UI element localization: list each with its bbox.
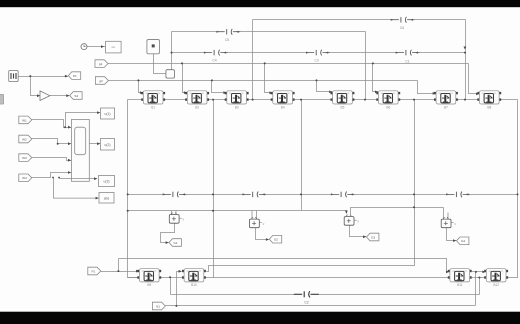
svg-text:abs: abs	[104, 197, 110, 201]
source block	[9, 70, 19, 81]
svg-text:B6: B6	[386, 105, 390, 109]
svg-text:B10: B10	[191, 283, 197, 287]
svg-text:W3: W3	[22, 156, 27, 160]
wire line C4-C3-C1 net	[172, 52, 466, 54]
u4 block	[99, 193, 114, 204]
wire g2 drop to B3	[212, 81, 227, 93]
wire main row bus	[128, 99, 518, 101]
mosfet B7	[434, 91, 458, 110]
wire driver2 pins	[252, 211, 257, 219]
capacitor C1	[396, 49, 420, 56]
svg-text:u(2): u(2)	[104, 143, 110, 147]
wire g2 drop to B5	[317, 81, 333, 92]
svg-text:B3: B3	[235, 105, 239, 109]
svg-text:S2: S2	[74, 94, 78, 98]
mosfet B6	[376, 91, 400, 110]
wire vertical x365.5	[365, 32, 367, 100]
wire g1 drop to B2	[183, 64, 187, 93]
capacitor C7	[163, 191, 187, 198]
svg-text:C3: C3	[314, 59, 318, 63]
goto tag G3	[367, 233, 379, 241]
svg-text:g1: g1	[99, 62, 103, 66]
mosfet B2	[185, 91, 209, 110]
wire W4 branch to u3	[60, 178, 98, 179]
driver U4	[441, 217, 456, 228]
svg-text:B4: B4	[281, 105, 285, 109]
svg-text:B12: B12	[493, 283, 499, 287]
wire gate line g2	[109, 80, 418, 82]
wire vertical x301.5	[301, 100, 303, 211]
wire N1 vertical to B10	[177, 272, 182, 306]
svg-text:C1: C1	[405, 60, 409, 64]
svg-text:C4: C4	[212, 59, 216, 63]
wire g2 drop to B7	[418, 81, 436, 94]
wire right bus vertical	[507, 100, 517, 278]
u2 block	[101, 139, 115, 151]
svg-text:g2: g2	[99, 79, 103, 83]
wire g1 drop to B6	[373, 64, 379, 92]
wire driver2 output	[256, 228, 269, 239]
mosfet B8	[477, 91, 501, 110]
wire driver4 pins	[444, 208, 449, 219]
wire g1 drop to B8	[469, 64, 480, 94]
left edge tab	[0, 94, 4, 104]
mosfet B5	[331, 91, 355, 110]
driver U2	[250, 217, 265, 228]
mosfet B9	[137, 269, 161, 288]
wire W1	[30, 120, 71, 128]
from tag W1	[19, 116, 32, 124]
bottom letterbox bar	[0, 312, 520, 324]
svg-text:B5: B5	[341, 105, 345, 109]
capacitor C10	[446, 191, 470, 198]
svg-text:C6: C6	[400, 26, 404, 30]
wire driver1 output	[161, 223, 175, 242]
wire driver4 output	[447, 228, 457, 240]
solver block	[166, 70, 175, 78]
goto tag G1	[169, 239, 181, 247]
wire gate line g1	[108, 63, 469, 65]
wire C-D upper link	[472, 271, 486, 273]
goto tag S2	[70, 92, 82, 100]
wire C-D lower link	[472, 277, 486, 279]
mosfet B1	[141, 91, 165, 110]
goto tag G2	[269, 235, 281, 243]
wire to gain	[31, 77, 41, 96]
wire vertical x213.5	[213, 100, 215, 278]
svg-text:B11: B11	[457, 283, 463, 287]
gain triangle	[40, 91, 50, 101]
svg-text:C2: C2	[304, 301, 308, 305]
svg-text:W2: W2	[22, 137, 27, 141]
wire drop x170.5	[170, 278, 172, 295]
wire vertical x171.5 to solver	[171, 32, 173, 70]
svg-text:B2: B2	[195, 105, 199, 109]
capacitor C5	[217, 28, 241, 35]
wire N1 line	[166, 305, 476, 307]
svg-text:G1: G1	[174, 241, 178, 245]
capacitor C9	[331, 191, 355, 198]
from tag W4	[19, 174, 32, 182]
svg-text:W4: W4	[22, 176, 27, 180]
from tag P1	[88, 267, 101, 275]
scope block	[147, 40, 160, 54]
mosfet B12	[484, 269, 508, 288]
u3 block	[99, 176, 115, 187]
clock	[81, 44, 87, 50]
mux outer block	[71, 120, 89, 182]
u1 block	[101, 108, 115, 119]
from tag W3	[19, 154, 32, 162]
wire bottom cap line	[171, 294, 480, 296]
mux inner block	[75, 127, 86, 155]
wire W4 branch to abs	[54, 178, 99, 199]
wire clock to display	[87, 46, 106, 48]
capacitor C8	[243, 191, 267, 198]
svg-text:W1: W1	[22, 118, 27, 122]
wire gain to S2	[50, 95, 70, 97]
cap labels	[212, 26, 409, 305]
wire driver line left	[128, 211, 347, 214]
svg-text:P1: P1	[73, 74, 77, 78]
driver U1	[169, 213, 184, 224]
wire W4	[31, 173, 71, 178]
wire bottom bus y258	[119, 259, 450, 272]
wire W3	[31, 158, 71, 161]
svg-text:N1: N1	[156, 304, 160, 308]
wire bottom lower bus y277	[128, 277, 450, 279]
top letterbox bar	[0, 0, 520, 7]
wire W1 branch to u1	[66, 113, 101, 128]
mosfet B11	[448, 269, 472, 288]
mosfet B3	[225, 91, 249, 110]
wire scope pin	[154, 54, 166, 74]
from tag g1	[95, 60, 108, 68]
wire g2 drop to B1	[139, 81, 143, 93]
wire driver3 output	[350, 223, 367, 236]
wire driver1 pins	[172, 211, 177, 215]
wire g1 drop to B4	[265, 64, 273, 93]
svg-text:B8: B8	[487, 105, 491, 109]
svg-text:C5: C5	[225, 38, 229, 42]
mosfet B4	[271, 91, 295, 110]
wire x479.5 vertical	[479, 278, 481, 295]
from tag g2	[95, 77, 108, 85]
svg-text:u(3): u(3)	[103, 180, 109, 184]
display block	[106, 41, 122, 53]
svg-text:B1: B1	[151, 105, 155, 109]
goto tag P2	[68, 72, 80, 80]
svg-text:B7: B7	[444, 105, 448, 109]
wire top line C6 net	[253, 19, 466, 21]
from tag W2	[19, 135, 32, 143]
svg-text:G3: G3	[371, 235, 375, 239]
wire line C5 net	[172, 31, 366, 33]
wire vertical x414.5 down to lower bus	[206, 100, 414, 272]
capacitor C2	[294, 291, 319, 298]
svg-text:B9: B9	[147, 283, 151, 287]
wire driver line right	[351, 208, 444, 215]
wire P1 feed	[101, 259, 139, 272]
from tag N1	[152, 302, 165, 310]
wire left bus vertical	[128, 100, 140, 278]
goto tag G4	[457, 237, 469, 245]
wire x475.5 vertical	[475, 272, 477, 306]
wire W2	[31, 139, 71, 144]
wire mid capacitor line	[128, 194, 518, 196]
capacitor C3	[306, 49, 330, 56]
capacitor C4	[204, 49, 228, 56]
svg-text:u(1): u(1)	[104, 112, 110, 116]
wire mux to u2	[89, 143, 100, 145]
wire vertical x465.5	[465, 20, 467, 100]
wire vertical x252.5	[252, 20, 254, 100]
wire source to goto P2	[18, 76, 68, 78]
arrowheads	[37, 45, 485, 273]
svg-text:P1: P1	[92, 269, 96, 273]
svg-text:G2: G2	[274, 238, 278, 242]
mosfet B10	[182, 269, 206, 288]
capacitor C6	[391, 16, 415, 23]
driver U3	[344, 215, 359, 226]
svg-text:G4: G4	[461, 239, 465, 243]
